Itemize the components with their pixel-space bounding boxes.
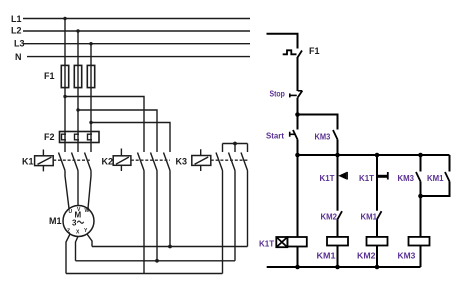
svg-text:Start: Start bbox=[266, 130, 284, 140]
svg-text:L3: L3 bbox=[14, 39, 25, 49]
svg-text:Stop: Stop bbox=[270, 89, 285, 99]
svg-text:K1: K1 bbox=[22, 157, 34, 167]
svg-text:KM2: KM2 bbox=[357, 251, 376, 261]
svg-text:KM3: KM3 bbox=[315, 131, 331, 141]
svg-text:KM1: KM1 bbox=[317, 251, 336, 261]
svg-text:3: 3 bbox=[72, 219, 77, 228]
svg-text:K2: K2 bbox=[102, 157, 114, 167]
svg-text:K1T: K1T bbox=[359, 173, 375, 183]
svg-text:K3: K3 bbox=[176, 157, 188, 167]
svg-text:Z: Z bbox=[67, 229, 70, 235]
svg-text:KM1: KM1 bbox=[427, 173, 444, 183]
svg-text:F2: F2 bbox=[44, 132, 55, 142]
svg-text:KM3: KM3 bbox=[398, 251, 416, 261]
svg-text:L2: L2 bbox=[11, 26, 22, 36]
svg-text:N: N bbox=[15, 52, 22, 62]
svg-text:K1T: K1T bbox=[259, 239, 275, 249]
svg-text:K1T: K1T bbox=[320, 173, 336, 183]
svg-text:W: W bbox=[85, 208, 90, 214]
svg-text:F1: F1 bbox=[44, 71, 55, 81]
svg-text:U: U bbox=[69, 209, 73, 215]
svg-text:KM2: KM2 bbox=[321, 212, 338, 222]
svg-text:L1: L1 bbox=[11, 14, 22, 24]
svg-text:KM3: KM3 bbox=[398, 173, 415, 183]
svg-text:M1: M1 bbox=[49, 216, 62, 226]
svg-text:F1: F1 bbox=[309, 46, 320, 56]
svg-text:KM1: KM1 bbox=[361, 212, 378, 222]
